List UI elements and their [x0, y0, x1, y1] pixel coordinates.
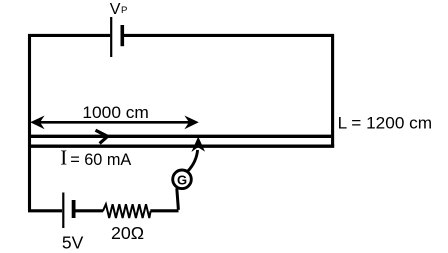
wire top-right segment (battery to top-right corner, down right side) — [124, 35, 333, 146]
bottom wire right segment to galvanometer branch — [150, 209, 178, 212]
svg-text:P: P — [121, 5, 127, 16]
measuring arrow 1000 cm — [34, 121, 194, 124]
battery VP short plate — [121, 25, 125, 46]
battery VP long plate — [110, 17, 112, 57]
potentiometer wire bottom line — [28, 145, 334, 148]
battery 5V long plate — [62, 193, 64, 229]
current direction arrowhead on wire — [96, 130, 108, 143]
svg-text:L = 1200 cm: L = 1200 cm — [338, 113, 433, 132]
svg-text:I: I — [60, 146, 67, 170]
wire from galvanometer bottom to resistor branch — [177, 188, 179, 210]
resistor 20 ohm zigzag — [103, 204, 151, 218]
svg-text:G: G — [177, 172, 187, 187]
wire top-left segment (top wire from left corner to battery plate) — [30, 35, 111, 210]
bottom wire middle segment — [76, 209, 104, 212]
battery 5V short plate — [72, 200, 76, 218]
jockey arrowhead — [191, 137, 205, 153]
svg-text:5V: 5V — [62, 233, 84, 253]
jockey curved wire from galvanometer to slide wire — [188, 150, 198, 172]
bottom wire left segment — [28, 209, 62, 212]
galvanometer G circle — [173, 170, 192, 189]
svg-text:= 60 mA: = 60 mA — [70, 151, 131, 169]
potentiometer wire top line — [28, 135, 331, 138]
svg-text:V: V — [110, 1, 121, 18]
svg-text:1000 cm: 1000 cm — [82, 104, 148, 122]
svg-text:20Ω: 20Ω — [111, 223, 144, 243]
